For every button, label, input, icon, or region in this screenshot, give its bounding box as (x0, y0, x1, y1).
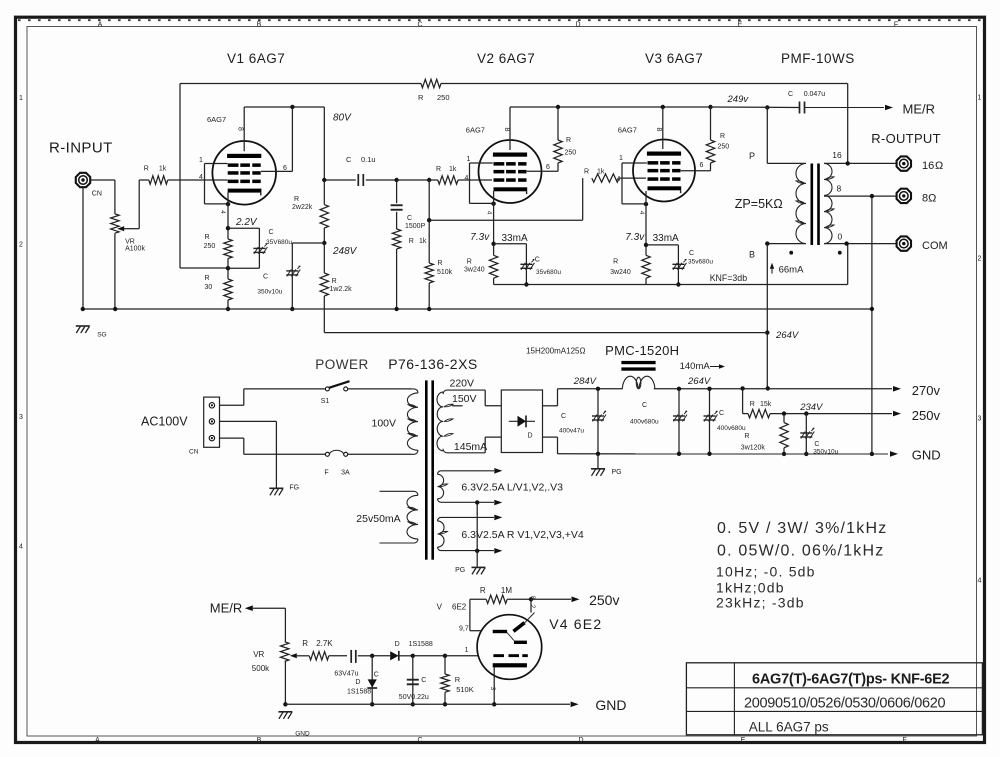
svg-text:4: 4 (219, 210, 226, 214)
svg-text:C: C (374, 672, 379, 679)
svg-text:63V47u: 63V47u (334, 671, 358, 678)
svg-text:F: F (894, 22, 898, 29)
svg-text:ZP=5KΩ: ZP=5KΩ (735, 197, 783, 211)
svg-text:VR: VR (253, 650, 264, 659)
svg-text:D: D (395, 641, 400, 648)
svg-text:0: 0 (838, 231, 843, 241)
svg-text:9,7: 9,7 (459, 626, 469, 633)
svg-text:C: C (535, 257, 540, 264)
svg-text:F: F (902, 737, 906, 744)
svg-text:6: 6 (546, 164, 550, 171)
svg-text:POWER: POWER (315, 357, 369, 372)
svg-text:V3 6AG7: V3 6AG7 (645, 51, 703, 66)
svg-text:250: 250 (718, 144, 730, 151)
svg-text:CN: CN (92, 191, 102, 198)
svg-text:R: R (480, 586, 486, 595)
svg-text:234V: 234V (799, 402, 824, 413)
svg-text:4: 4 (617, 176, 621, 183)
svg-text:V4 6E2: V4 6E2 (549, 616, 602, 632)
svg-text:ALL 6AG7 ps: ALL 6AG7 ps (749, 720, 829, 735)
svg-text:6AG7: 6AG7 (618, 126, 637, 135)
svg-text:R: R (332, 278, 337, 285)
svg-text:R: R (566, 137, 571, 144)
svg-text:C: C (263, 274, 268, 281)
svg-text:0.047u: 0.047u (804, 91, 826, 98)
svg-text:R: R (418, 93, 424, 102)
svg-text:1k: 1k (449, 166, 457, 173)
svg-text:6AG7: 6AG7 (207, 115, 226, 124)
svg-text:R-INPUT: R-INPUT (49, 140, 113, 157)
svg-text:4: 4 (638, 211, 645, 215)
svg-text:2.2V: 2.2V (235, 217, 258, 228)
svg-text:100V: 100V (372, 418, 397, 430)
svg-text:250v: 250v (589, 592, 619, 608)
svg-text:E: E (738, 22, 743, 29)
svg-text:1: 1 (199, 157, 203, 164)
svg-text:D: D (575, 22, 580, 29)
svg-text:145mA: 145mA (454, 441, 487, 453)
svg-text:80V: 80V (333, 113, 352, 124)
svg-text:249v: 249v (727, 94, 750, 105)
svg-text:1: 1 (467, 156, 471, 163)
svg-text:6AG7(T)-6AG7(T)ps- KNF-6E2: 6AG7(T)-6AG7(T)ps- KNF-6E2 (752, 672, 950, 688)
svg-text:500k: 500k (252, 664, 270, 673)
svg-text:8: 8 (503, 128, 510, 132)
svg-text:6.3V2.5A R V1,V2,V3,+V4: 6.3V2.5A R V1,V2,V3,+V4 (461, 529, 583, 541)
svg-text:1: 1 (19, 95, 23, 102)
svg-text:3w120k: 3w120k (741, 445, 766, 452)
svg-text:GND: GND (595, 697, 626, 713)
svg-text:35V680u: 35V680u (266, 239, 292, 246)
svg-text:350v10u: 350v10u (257, 289, 282, 296)
svg-text:R: R (438, 260, 443, 267)
svg-text:6E2: 6E2 (452, 603, 467, 612)
svg-text:25v50mA: 25v50mA (356, 513, 400, 525)
svg-text:33mA: 33mA (502, 233, 528, 244)
svg-text:A: A (98, 22, 103, 29)
svg-text:F: F (324, 470, 328, 477)
svg-text:PG: PG (455, 567, 465, 574)
svg-text:15H200mA125Ω: 15H200mA125Ω (526, 347, 585, 356)
svg-text:1: 1 (465, 647, 469, 654)
svg-text:ME/R: ME/R (903, 102, 936, 117)
svg-text:R: R (613, 259, 618, 266)
svg-text:D: D (355, 679, 360, 686)
svg-text:8Ω: 8Ω (922, 193, 936, 205)
svg-text:R: R (436, 166, 441, 173)
svg-text:B: B (749, 250, 755, 260)
svg-text:6.3V2.5A L/V1,V2,.V3: 6.3V2.5A L/V1,V2,.V3 (461, 482, 563, 494)
svg-text:R: R (409, 238, 414, 245)
svg-text:C: C (561, 413, 566, 420)
svg-text:V: V (437, 603, 443, 612)
svg-text:C: C (719, 410, 724, 417)
svg-text:284V: 284V (573, 376, 598, 387)
svg-text:140mA: 140mA (680, 361, 711, 372)
svg-text:250v: 250v (912, 408, 941, 423)
svg-text:400v47u: 400v47u (559, 428, 584, 435)
svg-text:P76-136-2XS: P76-136-2XS (388, 356, 478, 372)
svg-text:1: 1 (619, 155, 623, 162)
svg-text:GND: GND (912, 448, 941, 463)
svg-text:264V: 264V (687, 376, 712, 387)
svg-text:C: C (346, 155, 352, 164)
svg-text:R: R (144, 166, 149, 173)
svg-text:SG: SG (97, 332, 106, 339)
svg-text:Ω: Ω (935, 160, 943, 172)
svg-text:R: R (467, 259, 472, 266)
svg-text:C: C (814, 441, 819, 448)
svg-text:COM: COM (922, 240, 948, 252)
svg-text:R: R (294, 196, 299, 203)
svg-text:250: 250 (437, 93, 450, 102)
svg-text:C: C (269, 229, 274, 236)
svg-text:30: 30 (205, 284, 213, 291)
svg-text:P: P (749, 151, 755, 161)
svg-text:C: C (417, 737, 422, 744)
svg-text:R-OUTPUT: R-OUTPUT (871, 131, 941, 146)
svg-text:D: D (578, 737, 583, 744)
svg-text:1S1588: 1S1588 (409, 641, 433, 648)
svg-text:KNF=3db: KNF=3db (710, 273, 748, 283)
svg-text:1kHz;0db: 1kHz;0db (716, 580, 785, 596)
svg-text:B: B (257, 737, 262, 744)
svg-text:248V: 248V (332, 246, 358, 257)
svg-text:6AG7: 6AG7 (466, 126, 485, 135)
svg-text:10Hz; -0. 5db: 10Hz; -0. 5db (716, 564, 816, 580)
svg-text:1k: 1k (419, 238, 427, 245)
svg-text:R: R (205, 234, 210, 241)
svg-text:2: 2 (978, 256, 982, 263)
svg-text:1k: 1k (159, 166, 167, 173)
svg-text:1S1588: 1S1588 (347, 689, 371, 696)
svg-text:250: 250 (204, 243, 216, 250)
svg-text:4: 4 (486, 211, 493, 215)
svg-text:6: 6 (700, 162, 704, 169)
svg-text:3: 3 (978, 416, 982, 423)
svg-text:7.3v: 7.3v (470, 232, 490, 243)
svg-text:33mA: 33mA (653, 233, 679, 244)
svg-text:C: C (417, 22, 422, 29)
svg-text:4: 4 (465, 175, 469, 182)
svg-text:V1 6AG7: V1 6AG7 (227, 51, 285, 66)
svg-text:510K: 510K (456, 685, 474, 694)
svg-text:E: E (741, 737, 746, 744)
svg-text:C: C (689, 250, 694, 257)
svg-text:150V: 150V (452, 393, 477, 405)
svg-text:0. 5V / 3W/ 3%/1kHz: 0. 5V / 3W/ 3%/1kHz (717, 520, 887, 537)
svg-text:16: 16 (922, 160, 934, 172)
svg-text:R: R (205, 275, 210, 282)
svg-text:S1: S1 (321, 398, 330, 405)
svg-text:GND: GND (295, 731, 310, 738)
svg-text:2.7K: 2.7K (316, 639, 333, 648)
svg-text:270v: 270v (912, 383, 941, 398)
svg-text:CN: CN (189, 449, 199, 456)
svg-text:6: 6 (283, 165, 287, 172)
svg-text:VR: VR (125, 239, 135, 246)
svg-text:R: R (302, 639, 308, 648)
svg-text:R: R (455, 675, 461, 684)
svg-text:4: 4 (978, 578, 982, 585)
svg-text:3w240: 3w240 (464, 267, 485, 274)
svg-text:1500P: 1500P (405, 223, 426, 230)
svg-text:3: 3 (489, 687, 496, 691)
svg-text:1: 1 (978, 95, 982, 102)
svg-text:35v680u: 35v680u (688, 259, 713, 266)
svg-text:PMF-10WS: PMF-10WS (781, 51, 855, 66)
svg-text:1M: 1M (501, 586, 512, 595)
svg-text:510k: 510k (437, 269, 453, 276)
svg-text:264V: 264V (775, 330, 800, 341)
svg-text:V2 6AG7: V2 6AG7 (477, 51, 535, 66)
svg-text:3A: 3A (341, 470, 350, 477)
svg-text:ME/R: ME/R (210, 601, 243, 616)
svg-text:20090510/0526/0530/0606/0620: 20090510/0526/0530/0606/0620 (744, 696, 945, 712)
svg-text:15k: 15k (760, 401, 772, 408)
svg-text:2: 2 (19, 242, 23, 249)
svg-text:C: C (642, 402, 647, 409)
svg-text:AC100V: AC100V (141, 415, 188, 429)
svg-text:R: R (720, 133, 725, 140)
svg-text:35v680u: 35v680u (536, 269, 561, 276)
svg-text:1k: 1k (597, 169, 605, 176)
svg-text:3: 3 (19, 414, 23, 421)
svg-text:R: R (744, 433, 749, 440)
svg-text:16: 16 (832, 150, 842, 160)
svg-text:8: 8 (837, 184, 842, 194)
svg-text:2w22k: 2w22k (292, 204, 313, 211)
svg-text:PMC-1520H: PMC-1520H (605, 343, 679, 358)
svg-text:8: 8 (237, 127, 244, 131)
svg-text:23kHz; -3db: 23kHz; -3db (716, 595, 805, 611)
svg-text:D: D (528, 433, 533, 440)
svg-text:7.3v: 7.3v (625, 232, 645, 243)
svg-text:400v680u: 400v680u (630, 419, 659, 426)
svg-text:8: 8 (655, 128, 662, 132)
svg-text:66mA: 66mA (779, 265, 804, 276)
svg-text:3w240: 3w240 (610, 269, 631, 276)
svg-text:1w2.2k: 1w2.2k (330, 286, 353, 293)
svg-text:0.1u: 0.1u (361, 155, 376, 164)
svg-text:C: C (407, 215, 412, 222)
svg-text:PG: PG (612, 469, 622, 476)
svg-text:C: C (788, 91, 793, 98)
svg-text:0. 05W/0. 06%/1kHz: 0. 05W/0. 06%/1kHz (717, 543, 884, 560)
svg-text:FG: FG (289, 485, 299, 492)
svg-text:A: A (95, 737, 100, 744)
svg-text:4: 4 (19, 544, 23, 551)
svg-text:250: 250 (565, 150, 577, 157)
svg-text:R: R (584, 169, 589, 176)
svg-text:220V: 220V (450, 378, 475, 390)
svg-text:R: R (750, 401, 755, 408)
svg-text:A100k: A100k (125, 246, 145, 253)
svg-text:400v680u: 400v680u (717, 425, 746, 432)
svg-text:B: B (257, 22, 262, 29)
svg-text:C: C (421, 677, 426, 684)
svg-text:50V0.22u: 50V0.22u (399, 694, 429, 701)
